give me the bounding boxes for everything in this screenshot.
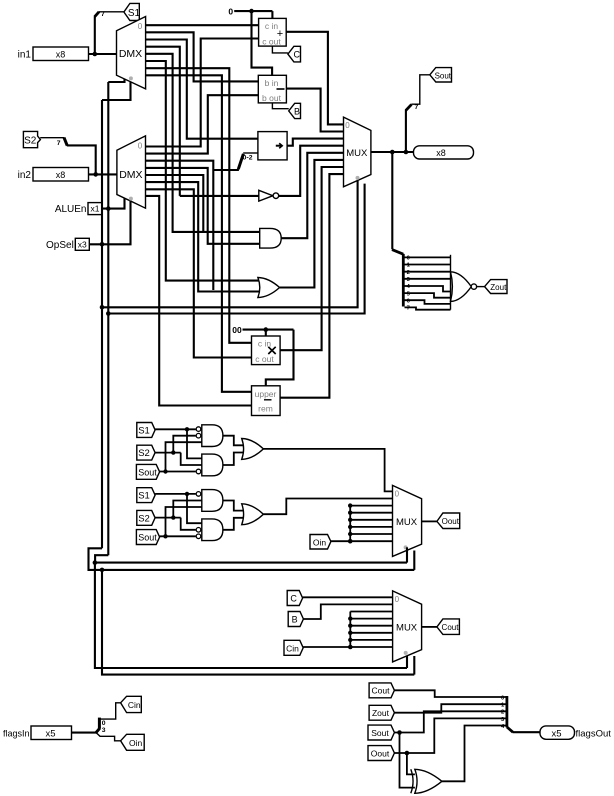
wire shifter out to MUX in2 [287, 139, 343, 146]
pin ALUEn [55, 203, 102, 216]
svg-text:in1: in1 [18, 50, 32, 61]
svg-text:DMX: DMX [119, 169, 142, 181]
wire MUXO in3 [350, 512, 392, 514]
wire MUXC in2 [350, 611, 392, 613]
splitter bit7 of in1 [95, 11, 105, 18]
node Sout flag branch [397, 730, 402, 735]
wire ALUEn rail to Cout mux select [95, 563, 407, 668]
wire flagsIn bus [72, 732, 97, 734]
wire MUXC select down [406, 653, 408, 668]
wire MUXO enable down [413, 551, 415, 570]
node S1 b2 [185, 492, 189, 496]
pin OpSel [46, 238, 89, 251]
node Sout b2 [163, 534, 167, 538]
OR gate 2 (block2) [242, 504, 264, 525]
splitter flagsOut [501, 696, 513, 733]
wire MUXO in4 [350, 519, 392, 521]
wire XOR out to splitter leg4 [442, 726, 506, 782]
node in2 junction [93, 172, 98, 177]
wire MUXC out [422, 626, 437, 628]
node OpSel row corner [100, 305, 105, 310]
wire Zout splitter leg0 [405, 256, 451, 258]
svg-text:x3: x3 [78, 239, 87, 249]
svg-text:upper: upper [255, 389, 277, 399]
OR gate [258, 278, 280, 298]
wire OpSel rail vertical [101, 100, 103, 548]
svg-text:Oout: Oout [442, 517, 460, 526]
subtractor U- [258, 75, 286, 103]
wire S2 to AND3 in2 (block2) [173, 501, 202, 518]
wire MUX1 out row [371, 151, 414, 153]
wire NOR out to Zout tunnel [477, 286, 485, 288]
svg-text:0: 0 [102, 720, 106, 727]
svg-text:Zout: Zout [372, 708, 390, 718]
wire MUXO in5 [350, 526, 392, 528]
tunnel C (bottom) [287, 591, 302, 606]
XOR gate (flags) [411, 769, 442, 793]
splitter bit7 of in2 [57, 138, 67, 147]
NOR gate (Zout) [451, 255, 477, 310]
wire OR2 out to MUXO in1 [263, 499, 392, 515]
svg-text:S2: S2 [138, 448, 150, 459]
svg-text:0: 0 [228, 6, 233, 16]
svg-text:Sout: Sout [138, 533, 157, 543]
wire C row to MUXC in0 [303, 596, 393, 598]
svg-text:Cin: Cin [128, 700, 141, 710]
input pin in2 [18, 168, 89, 182]
wire in1 bus up to splitter [94, 16, 96, 54]
wire S1 row (block1) [155, 428, 196, 430]
wire AND2 out to OR1 (block1) [223, 453, 244, 466]
mux MUX Cout [393, 591, 422, 662]
svg-text:0: 0 [501, 696, 504, 702]
svg-text:MUX: MUX [396, 622, 418, 633]
tunnel Oout (flags) [368, 746, 394, 761]
node Oout flag branch [405, 751, 410, 756]
tunnel Cout (right) [437, 619, 460, 635]
svg-text:3: 3 [102, 727, 106, 734]
tunnel Oin (flagsIn) [121, 734, 145, 750]
wire OpSel rail to Cout mux enable [102, 570, 414, 675]
demux DMX1 [117, 17, 146, 89]
input pin flagsIn x5 [3, 726, 72, 740]
svg-text:C: C [294, 50, 301, 60]
svg-text:in2: in2 [18, 170, 32, 181]
svg-text:C: C [290, 594, 297, 604]
wire Sout bus up [405, 110, 407, 152]
tunnel Sout (flags) [368, 725, 394, 740]
wire MUXO in2 [350, 505, 392, 507]
svg-text:DMX: DMX [119, 48, 142, 60]
svg-text:flagsOut: flagsOut [576, 729, 612, 740]
svg-text:flagsIn: flagsIn [3, 728, 30, 738]
wire Zout splitter leg3 [405, 278, 451, 280]
wire DMX2 out1 riser to subtractor B [146, 95, 259, 153]
wire 00 to multiplier cin [265, 330, 267, 336]
tunnel B (bottom) [288, 612, 303, 627]
svg-text:Sout: Sout [435, 71, 452, 80]
wire DMX1 out1 to subtractor A [146, 32, 259, 81]
svg-text:b in: b in [265, 78, 279, 88]
wire Oout flag to splitter leg3 [394, 718, 505, 753]
wire DMX2 out0 riser to adder B [146, 39, 259, 147]
wire Sout flag to XOR [400, 733, 415, 788]
wire adder cout to C tunnel [272, 46, 288, 53]
tunnel S2 (block2) [137, 510, 155, 525]
svg-text:rem: rem [258, 403, 273, 413]
AND gate 1 (block1, inverted in1 in2) [196, 425, 223, 447]
svg-text:S2: S2 [138, 513, 150, 524]
splitter bit7 of out [406, 104, 419, 111]
wire Oin row to MUXO in7 [331, 540, 393, 542]
tunnel Sout (block1) [136, 464, 159, 479]
wire S1 row (block2) [155, 493, 196, 495]
node S2 b2 [171, 515, 175, 519]
node 0 junction [249, 9, 254, 14]
wire Zout splitter leg2 [405, 271, 451, 273]
wire in2 bus to splitter [67, 145, 96, 174]
demux DMX2 [117, 136, 146, 208]
svg-text:S2: S2 [24, 135, 37, 146]
tunnel Sout (block2) [136, 530, 159, 545]
wire NOT input row [180, 195, 259, 197]
shifter [258, 132, 287, 160]
wire OpSel row to MUX1 select [102, 181, 358, 308]
svg-text:0: 0 [138, 141, 143, 150]
svg-text:x8: x8 [436, 148, 446, 158]
svg-text:b out: b out [262, 93, 282, 103]
svg-text:c out: c out [255, 354, 274, 364]
node S2 b1 [171, 450, 175, 454]
wire DMX1 select jog [102, 82, 131, 100]
svg-text:0: 0 [395, 489, 400, 498]
node OpSel rail junction [100, 242, 105, 247]
tunnel C (top) [288, 46, 301, 62]
node in1 junction [93, 52, 98, 57]
divider upper/rem [252, 386, 281, 416]
OR gate 1 (block1) [242, 439, 264, 460]
node OpSel bottom branch [100, 568, 105, 573]
svg-text:x8: x8 [56, 50, 66, 60]
wire shifter B leg [243, 152, 258, 154]
wire 0 to adder cin [271, 11, 273, 18]
wire divider out to MUX in7 [280, 174, 343, 398]
splitter Zout 8-bit [392, 250, 411, 312]
wire OpSel bottom jog [89, 548, 415, 570]
svg-text:7: 7 [415, 104, 419, 111]
wire DMX2 out5 to OR in2 [146, 182, 261, 291]
svg-text:OpSel: OpSel [46, 240, 74, 251]
tunnel S1 (block2) [137, 488, 155, 503]
svg-text:Cout: Cout [372, 686, 391, 696]
wire OpSel row to DMX2 select [89, 201, 130, 244]
tunnel S1 [124, 3, 141, 20]
svg-text:0-2: 0-2 [243, 155, 253, 162]
tunnel Zout (flags) [369, 705, 394, 720]
node ALUEn row corner [106, 311, 111, 316]
AND gate 4 (block2, inverted in2 in3) [196, 519, 223, 541]
node ALUEn rail junction [106, 206, 111, 211]
wire DMX2 out3 to AND in2 [146, 168, 260, 244]
wire Zout splitter leg4 [405, 286, 451, 292]
svg-text:S1: S1 [138, 491, 150, 502]
svg-text:2: 2 [501, 710, 504, 716]
wire Zout splitter leg1 [405, 264, 451, 266]
svg-text:Cout: Cout [442, 623, 460, 632]
wire DMX2 out7 to divider rem row [146, 196, 252, 406]
wire S1 to AND4 in1 (block2) [187, 494, 202, 523]
wire adder sum to MUX in0 [286, 32, 343, 125]
svg-text:Sout: Sout [138, 467, 157, 477]
wire S2 to splitter [40, 137, 64, 139]
node out junction Zout [390, 150, 395, 155]
wire Zout splitter leg7 [405, 307, 451, 309]
svg-text:Oin: Oin [129, 738, 143, 748]
wire DMX1 out3 to NOT row [146, 47, 180, 196]
multiplier [252, 336, 281, 365]
tunnel B (top) [289, 103, 301, 118]
wire 00 row [243, 329, 294, 331]
svg-text:S1: S1 [128, 8, 141, 19]
output pin out x8 [414, 146, 474, 159]
svg-text:0: 0 [345, 121, 350, 130]
wire flagsIn bit0 to Cin [101, 703, 121, 719]
svg-text:S1: S1 [138, 426, 150, 437]
svg-text:B: B [294, 107, 300, 117]
wire Sout to AND3 in3 (block2) [166, 507, 202, 536]
wire ALUEn bottom jog [95, 555, 407, 562]
wire jog to shift splitter [213, 169, 239, 171]
node Cin junction [348, 645, 353, 650]
svg-text:0: 0 [395, 595, 400, 604]
input pin in1 [18, 47, 89, 61]
wire DMX1 enable jog [108, 79, 124, 82]
wire S1 to AND2 in1 (block1) [187, 429, 202, 458]
NOT gate [259, 190, 279, 201]
wire AND4 out to OR2 (block2) [223, 518, 244, 530]
wire Oout flag to XOR [407, 753, 415, 774]
svg-text:c out: c out [262, 36, 281, 46]
node Oin junction [348, 539, 353, 544]
wire Zout splitter leg5 [405, 293, 451, 298]
wire ALUEn row to DMX2 enable [102, 198, 125, 209]
wire MUXC in4 [350, 625, 392, 627]
wire MUXO in6 [350, 533, 392, 535]
tunnel Cin (flagsIn) [121, 696, 142, 712]
wire MUXC enable down [413, 656, 415, 675]
wire MUXC in5 [350, 632, 392, 634]
svg-text:ALUEn: ALUEn [55, 204, 87, 215]
wire in2 row [89, 173, 117, 175]
wire Sout row (block1) [160, 471, 196, 473]
wire OR1 out to MUXO in0 [263, 449, 392, 492]
node MUXO fan dots [348, 503, 352, 536]
node 00 junction [264, 327, 269, 332]
tunnel Zout (right) [485, 280, 507, 294]
svg-text:2: 2 [407, 270, 410, 276]
svg-text:x5: x5 [45, 729, 55, 740]
svg-text:Oin: Oin [313, 537, 327, 547]
wire ALUEn rail vertical [107, 82, 109, 555]
wire OR out to MUX in5 [280, 160, 344, 288]
wire 00 to divider top [266, 330, 294, 386]
wire Cin row to MUXC in7 [303, 646, 392, 648]
node ALUEn bottom branch [93, 560, 98, 565]
node out junction Sout [404, 150, 409, 155]
wire NOT out to MUX in3 [279, 146, 344, 196]
AND gate 3 (block2, inverted in1) [196, 490, 223, 512]
wire sub out to MUX in1 [286, 89, 343, 132]
svg-text:00: 00 [232, 325, 242, 335]
wire AND3 out to OR2 (block2) [223, 501, 244, 511]
svg-text:Zout: Zout [490, 283, 507, 292]
wire S2 to AND1 in2 (block1) [173, 436, 196, 453]
wire MUXO out [422, 520, 437, 522]
wire Cin fan column [349, 612, 351, 648]
tunnel S1 (block1) [137, 423, 155, 438]
wire DMX1 out6 to multiplier A [146, 68, 252, 343]
wire Cout flag to splitter leg0 [394, 690, 505, 697]
wire DMX1 out7 to divider A [146, 75, 252, 392]
wire DMX2 out6 to multiplier B [146, 189, 252, 357]
wire MUXO select down [406, 547, 408, 562]
AND gate 2 (block1, inverted in3) [196, 454, 223, 476]
svg-text:MUX: MUX [346, 148, 368, 159]
tunnel Oin [310, 535, 331, 550]
wire 0 row [234, 10, 272, 12]
wire sub bout to B tunnel [272, 103, 288, 109]
svg-text:B: B [292, 615, 298, 625]
wire Sout row (block2) [160, 535, 196, 537]
wire multiplier out to MUX in6 [280, 167, 343, 350]
wire B jog to MUXC in1 [303, 604, 392, 619]
svg-text:x5: x5 [551, 729, 561, 740]
wire MUXC in6 [350, 639, 392, 641]
svg-text:Oout: Oout [371, 748, 390, 758]
tunnel Oout (right) [437, 513, 460, 529]
wire to S1 tunnel [99, 11, 124, 13]
wire DMX2 out4 down to AND in1 row [146, 175, 204, 232]
adder U+ [259, 18, 287, 46]
splitter flagsIn [96, 718, 106, 734]
wire DMX2 out2 down [146, 161, 214, 290]
wire DMX1 out2 to shifter A [146, 40, 258, 139]
AND gate [260, 228, 282, 248]
svg-text:x8: x8 [56, 170, 66, 180]
output pin flagsOut x5 [540, 726, 611, 740]
node S1 b1 [185, 427, 189, 431]
tunnel Cin (bottom) [284, 640, 303, 655]
wire flagsOut bus [513, 731, 540, 733]
svg-text:Cin: Cin [286, 643, 299, 653]
wire MUXC in3 [350, 618, 392, 620]
wire S2 to AND4 in2 (block2) [181, 518, 196, 530]
wire S2 to AND2 in2 (block1) [181, 453, 202, 465]
svg-text:MUX: MUX [396, 517, 418, 528]
wire AND1 out to OR1 (block1) [223, 436, 244, 446]
svg-text:x1: x1 [91, 204, 100, 214]
wire S2 row (block1) [155, 452, 181, 454]
node MUXC fan dots [348, 616, 352, 642]
wire flagsIn bit3 to Oin [97, 733, 121, 741]
mux MUX Oout [393, 485, 422, 556]
tunnel S2 [23, 131, 40, 147]
wire ALUEn row to MUX1 enable [108, 184, 364, 314]
wire DMX1 out4 to AND in1 [146, 54, 260, 232]
wire 0 to subtractor bin [252, 11, 273, 75]
wire Zout splitter leg6 [405, 300, 451, 304]
wire Oin fan column [349, 506, 351, 542]
svg-text:7: 7 [57, 140, 61, 147]
splitter 0-2 (shift amount) [238, 154, 252, 169]
wire DMX1 out5 to OR in1 [146, 61, 261, 281]
tunnel S2 (block1) [137, 445, 155, 460]
wire AND out to MUX in4 [281, 153, 343, 238]
node Sout b1 [163, 469, 167, 473]
wire S2 row (block2) [155, 517, 181, 519]
svg-text:0: 0 [138, 22, 143, 31]
wire in1 row [89, 53, 117, 55]
tunnel Sout (top) [430, 68, 452, 82]
wire Zout bus down [391, 152, 393, 249]
wire Sout flag to splitter leg2 [394, 711, 505, 732]
wire Zout flag to splitter leg1 [394, 704, 505, 713]
tunnel Cout (flags) [369, 683, 394, 698]
wire splitter leg to Sout tunnel [411, 75, 430, 104]
svg-text:Sout: Sout [371, 728, 389, 738]
mux MUX1 [344, 117, 371, 187]
wire DMX1 out0 to adder A [146, 24, 259, 26]
wire Sout to AND1 in3 (block1) [166, 442, 202, 471]
